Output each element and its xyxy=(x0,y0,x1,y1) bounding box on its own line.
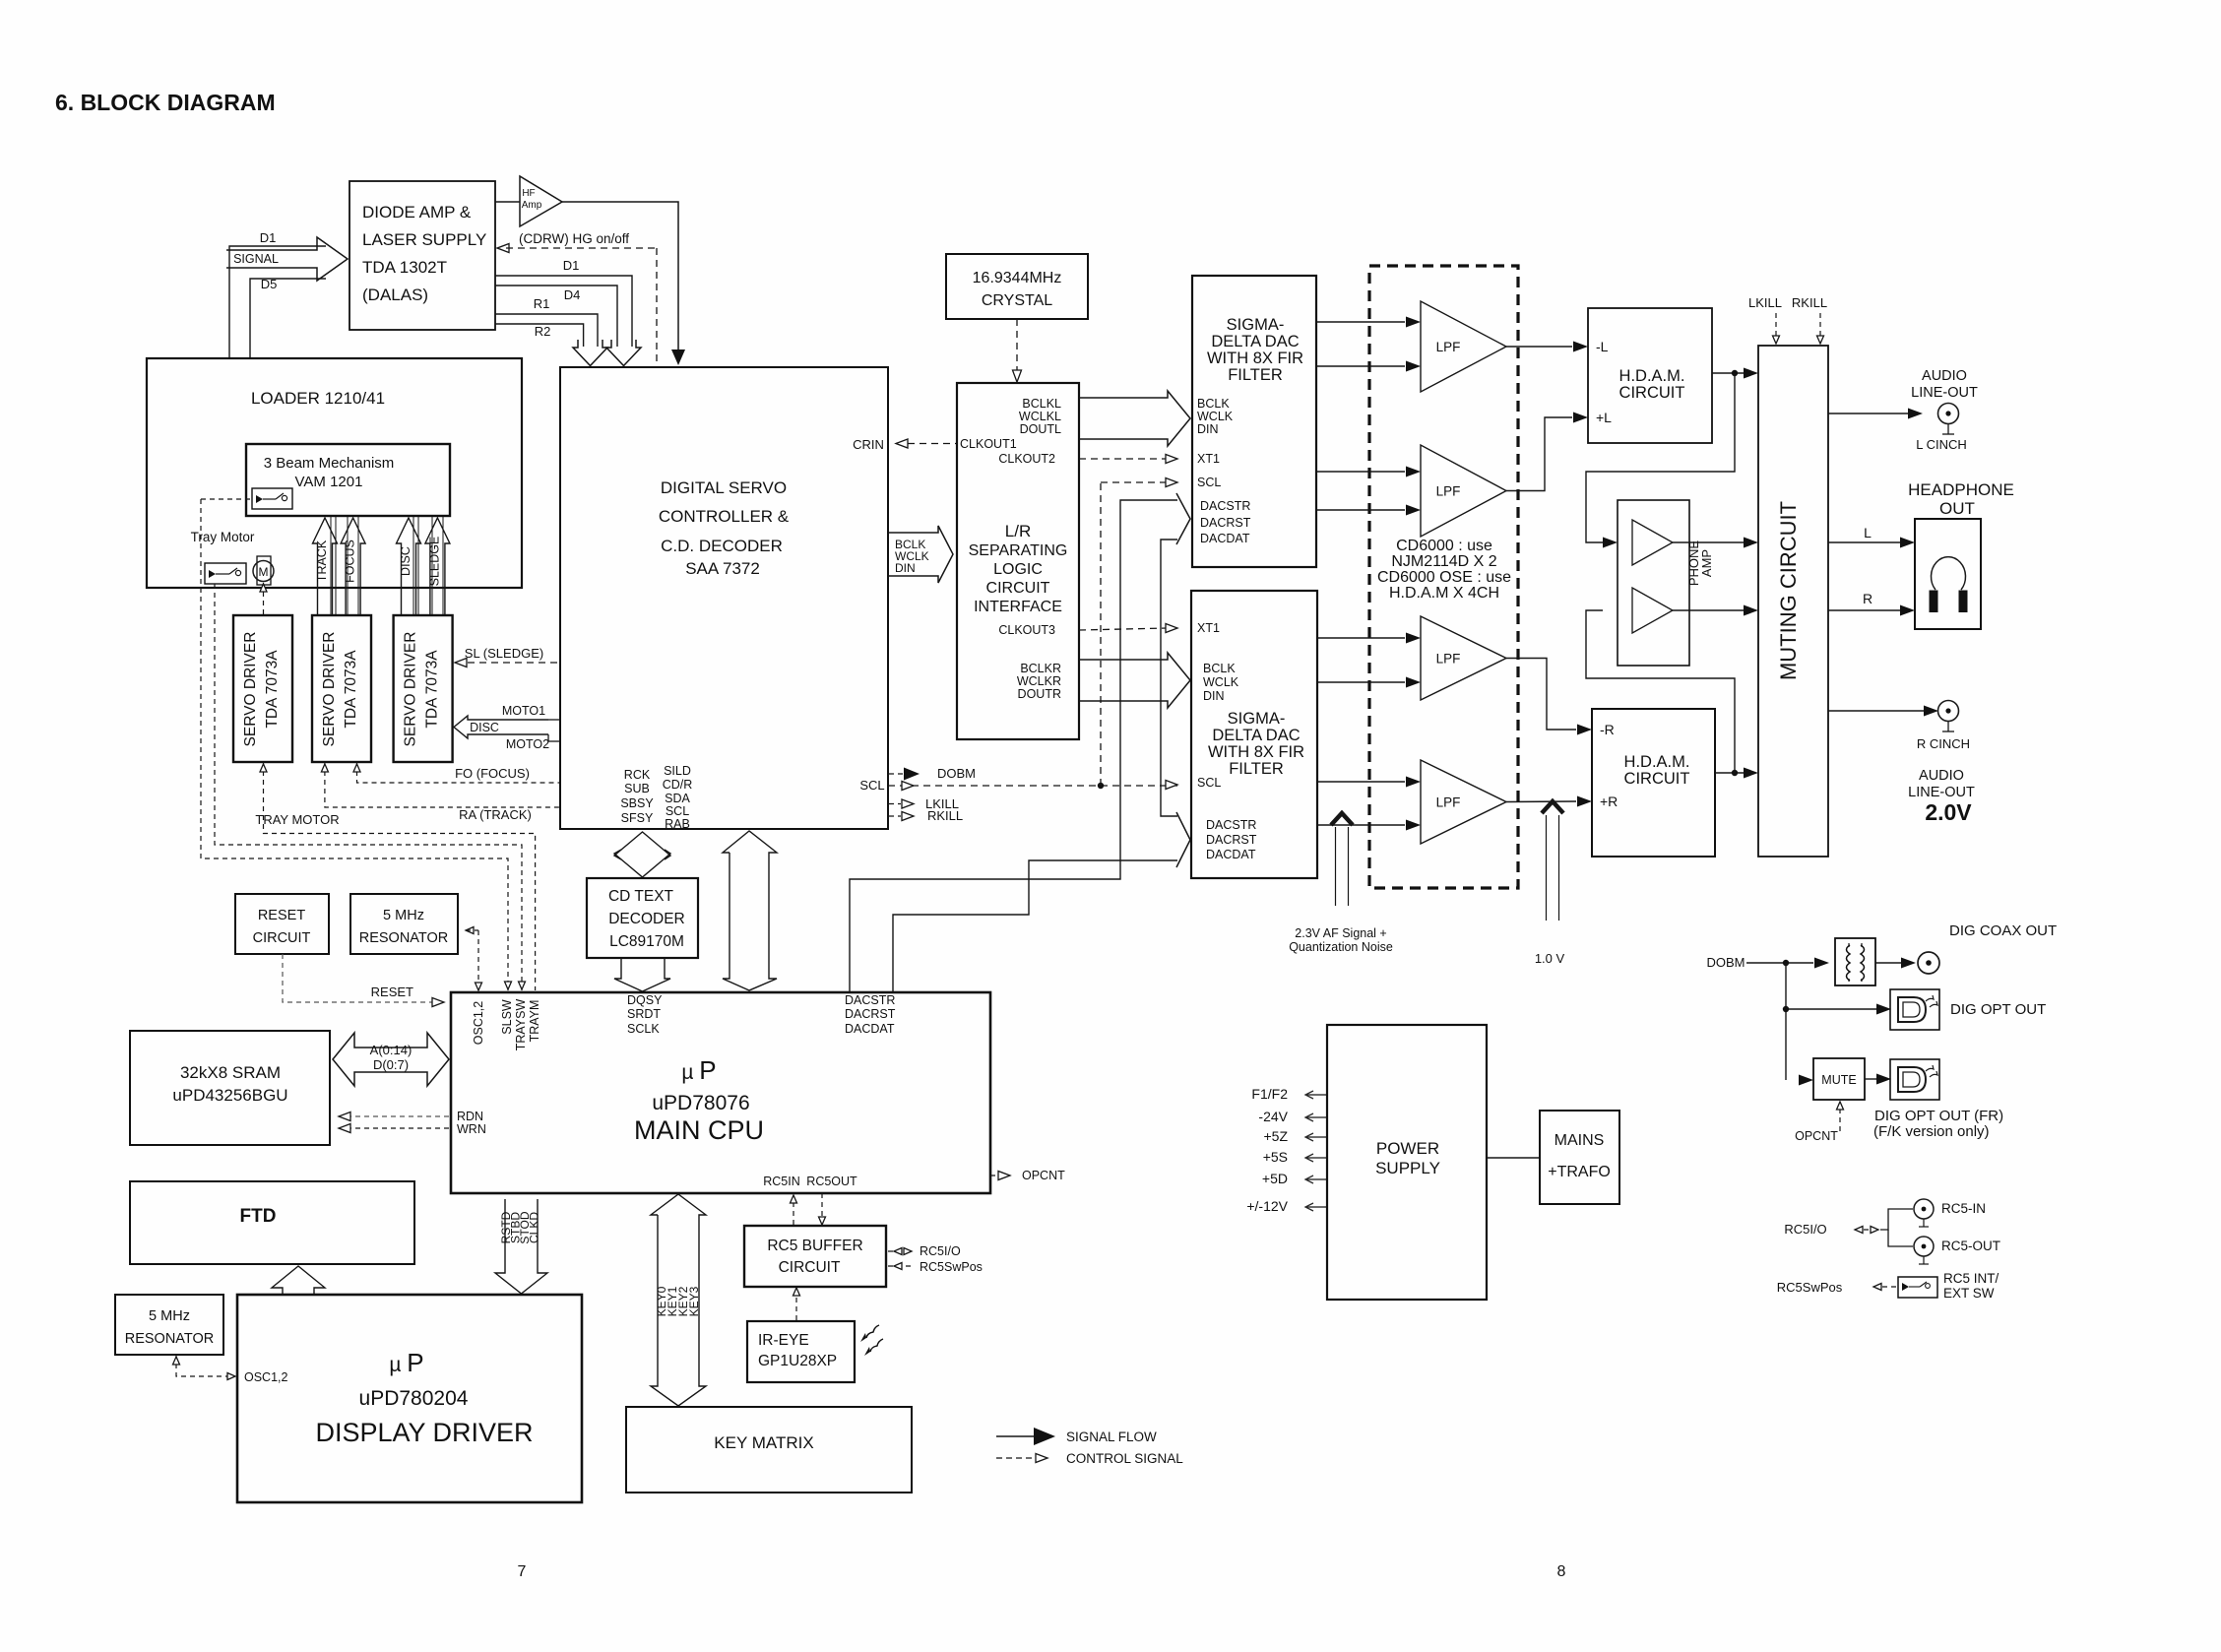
svg-text:RESET: RESET xyxy=(371,985,413,999)
block DISPLAY DRIVER uPD780204 xyxy=(237,1295,582,1502)
svg-text:R: R xyxy=(1863,591,1872,606)
wire HDAM2 output to phone amp 2 xyxy=(1586,610,1735,773)
svg-text:2.0V: 2.0V xyxy=(1925,799,1972,825)
wire muting to L line-out xyxy=(1828,413,1908,414)
wire HDAM1 output to muting xyxy=(1712,372,1744,374)
svg-text:SDA: SDA xyxy=(665,792,690,805)
svg-text:LC89170M: LC89170M xyxy=(609,933,684,950)
svg-text:SCL: SCL xyxy=(1197,776,1221,790)
svg-text:L CINCH: L CINCH xyxy=(1916,437,1967,452)
svg-text:WRN: WRN xyxy=(457,1122,486,1136)
block 5 MHz RESONATOR upper xyxy=(350,894,458,954)
dashed wire crystal to L/R interface xyxy=(1016,319,1018,374)
block DIODE AMP & LASER SUPPLY TDA1302T xyxy=(349,181,495,330)
svg-text:SCL: SCL xyxy=(1197,476,1221,489)
svg-text:R1: R1 xyxy=(534,296,550,311)
wire LPF1 to HDAM -L xyxy=(1506,346,1572,348)
svg-text:DACSTR: DACSTR xyxy=(845,993,895,1007)
svg-text:Quantization Noise: Quantization Noise xyxy=(1289,940,1393,954)
arrow 2.3V AF Signal + Quantization Noise xyxy=(1331,813,1353,825)
dashed wire RC5OUT xyxy=(821,1193,823,1218)
svg-text:FOCUS: FOCUS xyxy=(344,540,357,583)
svg-text:WCLK: WCLK xyxy=(1203,675,1239,689)
wires inside TRACK arrow xyxy=(330,517,332,615)
svg-text:DIN: DIN xyxy=(1197,422,1219,436)
dashed wire WRN xyxy=(347,1127,451,1129)
svg-text:CIRCUIT: CIRCUIT xyxy=(253,930,311,946)
dashed wire RDN xyxy=(347,1115,451,1117)
dashed box op-amp section xyxy=(1369,266,1518,888)
svg-text:uPD780204: uPD780204 xyxy=(359,1387,469,1410)
svg-text:5 MHz: 5 MHz xyxy=(383,908,424,923)
wire MUTE to optical FR xyxy=(1865,1078,1876,1080)
DIG OPT OUT FR connector xyxy=(1890,1059,1939,1100)
svg-text:LOADER 1210/41: LOADER 1210/41 xyxy=(251,389,385,408)
svg-text:SCL: SCL xyxy=(859,778,884,793)
RC5-IN connector xyxy=(1914,1199,1934,1219)
L cinch connector xyxy=(1938,404,1959,424)
svg-text:LPF: LPF xyxy=(1436,795,1461,810)
svg-text:RAB: RAB xyxy=(665,817,690,831)
svg-text:WITH 8X FIR: WITH 8X FIR xyxy=(1208,743,1304,761)
dashed wire tray motor drive from servo driver 1 xyxy=(263,583,265,614)
svg-text:+5Z: +5Z xyxy=(1263,1128,1288,1144)
svg-text:-24V: -24V xyxy=(1258,1109,1288,1124)
RC5 INT/EXT switch xyxy=(1898,1277,1937,1298)
dashed wire (CDRW) HG on/off xyxy=(497,244,509,253)
chevron DACSTR into upper DAC xyxy=(1176,493,1190,544)
svg-text:D1: D1 xyxy=(260,230,277,245)
svg-text:DACSTR: DACSTR xyxy=(1206,818,1256,832)
svg-text:TDA 7073A: TDA 7073A xyxy=(424,650,441,729)
svg-text:WITH 8X FIR: WITH 8X FIR xyxy=(1207,349,1303,367)
wire branch to MUTE xyxy=(1799,1075,1813,1086)
svg-text:OSC1,2: OSC1,2 xyxy=(244,1370,288,1384)
dashed wire OPCNT to MUTE xyxy=(1839,1109,1841,1131)
bus arrow CPU to display driver RSTD STBD STOD CLKD xyxy=(495,1199,547,1294)
block phone amp xyxy=(1618,500,1689,666)
svg-text:L/R: L/R xyxy=(1005,522,1031,540)
svg-text:+R: +R xyxy=(1600,794,1618,809)
block MAINS +TRAFO xyxy=(1540,1111,1619,1204)
switch symbol in 3 beam mechanism xyxy=(252,488,292,509)
svg-text:RCK: RCK xyxy=(624,768,651,782)
block RESET CIRCUIT xyxy=(235,894,329,954)
svg-text:TRACK: TRACK xyxy=(315,540,329,582)
svg-text:L: L xyxy=(1864,525,1872,540)
svg-text:TRAY MOTOR: TRAY MOTOR xyxy=(255,812,339,827)
svg-text:SAA 7372: SAA 7372 xyxy=(685,559,760,578)
svg-text:MUTE: MUTE xyxy=(1821,1073,1856,1087)
block headphone jack xyxy=(1915,519,1981,629)
svg-text:DIN: DIN xyxy=(1203,689,1225,703)
svg-text:SBSY: SBSY xyxy=(620,796,654,810)
svg-text:MUTING CIRCUIT: MUTING CIRCUIT xyxy=(1776,501,1801,680)
svg-text:BCLKL: BCLKL xyxy=(1022,397,1061,411)
svg-text:LPF: LPF xyxy=(1436,484,1461,499)
bus arrow CD TEXT to CPU xyxy=(614,958,670,991)
dashed wire CRIN - CLKOUT1 xyxy=(896,443,957,445)
svg-text:DIODE AMP &: DIODE AMP & xyxy=(362,203,472,222)
svg-text:DACDAT: DACDAT xyxy=(845,1022,895,1036)
svg-text:TDA 7073A: TDA 7073A xyxy=(264,650,281,729)
wire DOBM out of servo xyxy=(888,773,903,775)
wire LPF4 to HDAM2 +R xyxy=(1506,800,1576,803)
phone amp triangle 1 xyxy=(1632,520,1673,565)
block SERVO DRIVER TDA 7073A #2 xyxy=(312,615,371,762)
svg-text:VAM 1201: VAM 1201 xyxy=(295,474,363,490)
svg-text:LASER SUPPLY: LASER SUPPLY xyxy=(362,230,486,249)
svg-text:CLKOUT1: CLKOUT1 xyxy=(960,437,1017,451)
block KEY MATRIX xyxy=(626,1407,912,1493)
svg-text:RC5-OUT: RC5-OUT xyxy=(1941,1239,2000,1253)
svg-text:DIGITAL SERVO: DIGITAL SERVO xyxy=(661,478,787,497)
svg-text:RESET: RESET xyxy=(258,908,305,923)
svg-text:SUB: SUB xyxy=(624,782,650,795)
svg-text:XT1: XT1 xyxy=(1197,621,1220,635)
hollow arrow FOCUS to 3 beam mechanism xyxy=(341,518,365,615)
svg-text:+L: +L xyxy=(1596,410,1612,425)
wire D1 output xyxy=(495,276,632,347)
svg-text:MOTO1: MOTO1 xyxy=(502,704,545,718)
svg-text:SIGNAL FLOW: SIGNAL FLOW xyxy=(1066,1430,1157,1444)
dashed wire RESET to CPU xyxy=(283,954,436,1002)
svg-text:MAIN CPU: MAIN CPU xyxy=(634,1115,764,1145)
svg-text:CIRCUIT: CIRCUIT xyxy=(1624,770,1690,788)
svg-text:(F/K version only): (F/K version only) xyxy=(1873,1123,1990,1140)
svg-text:DISC: DISC xyxy=(399,546,412,576)
wire MOTO1 xyxy=(548,719,560,721)
svg-text:SCL: SCL xyxy=(666,804,689,818)
hollow arrow display driver to FTD xyxy=(272,1266,325,1295)
svg-text:OPCNT: OPCNT xyxy=(1795,1129,1838,1143)
wires lower DAC to LPF3 xyxy=(1317,637,1405,639)
bus arrow BCLK WCLK DIN servo to L/R interface xyxy=(888,526,953,583)
hollow arrow SLEDGE to 3 beam mechanism xyxy=(425,518,450,615)
dashed wire RC5IN xyxy=(793,1201,794,1225)
block RC5 BUFFER CIRCUIT xyxy=(744,1226,886,1287)
switch symbol tray motor xyxy=(205,563,246,584)
svg-text:RC5IN: RC5IN xyxy=(763,1175,800,1188)
dashed wire RC5I/O xyxy=(1855,1229,1878,1231)
svg-text:A(0:14): A(0:14) xyxy=(370,1043,412,1057)
svg-text:M: M xyxy=(259,565,269,579)
svg-text:TDA 7073A: TDA 7073A xyxy=(343,650,359,729)
signal input block arrow into diode amp xyxy=(226,237,348,281)
svg-text:R CINCH: R CINCH xyxy=(1917,736,1970,751)
tray motor M circle xyxy=(257,556,271,585)
dashed wire resonator OSC to CPU xyxy=(466,927,474,934)
svg-text:DACRST: DACRST xyxy=(845,1007,896,1021)
block SERVO DRIVER TDA 7073A #1 xyxy=(233,615,292,762)
svg-text:H.D.A.M.: H.D.A.M. xyxy=(1624,753,1690,771)
svg-text:POWER: POWER xyxy=(1376,1139,1439,1158)
svg-text:LOGIC: LOGIC xyxy=(993,561,1043,578)
svg-text:SILD: SILD xyxy=(664,764,691,778)
block MAIN CPU uPD78076 xyxy=(451,992,990,1193)
svg-text:LPF: LPF xyxy=(1436,340,1461,354)
block H.D.A.M. CIRCUIT upper xyxy=(1588,308,1712,443)
svg-text:IR-EYE: IR-EYE xyxy=(758,1332,809,1349)
svg-text:CONTROL SIGNAL: CONTROL SIGNAL xyxy=(1066,1451,1183,1466)
wire DAC bus CPU to upper DAC xyxy=(850,500,1177,992)
svg-text:DACDAT: DACDAT xyxy=(1200,532,1250,545)
svg-text:DISPLAY DRIVER: DISPLAY DRIVER xyxy=(315,1418,533,1447)
dashed wire from 3 beam switch xyxy=(201,498,252,500)
svg-text:Amp: Amp xyxy=(522,200,542,211)
dashed wire RKILL into muting xyxy=(1819,313,1821,337)
LPF 2 (lower left channel) xyxy=(1421,445,1506,537)
svg-text:RESONATOR: RESONATOR xyxy=(359,930,449,946)
block LOADER 1210/41 xyxy=(147,358,522,588)
svg-text:DECODER: DECODER xyxy=(608,911,685,927)
svg-text:CD TEXT: CD TEXT xyxy=(608,888,674,905)
svg-text:(DALAS): (DALAS) xyxy=(362,286,428,304)
bus arrow servo to CD TEXT xyxy=(614,832,670,859)
wire LPF2 to HDAM +L xyxy=(1506,417,1572,491)
wire diode amp to HF amp xyxy=(495,201,520,203)
svg-text:5 MHz: 5 MHz xyxy=(149,1308,190,1324)
svg-text:CIRCUIT: CIRCUIT xyxy=(779,1259,841,1276)
bus arrow servo to CPU (SILD bus) xyxy=(723,831,777,990)
svg-text:DACDAT: DACDAT xyxy=(1206,848,1256,861)
block SIGMA-DELTA DAC upper xyxy=(1192,276,1316,567)
svg-text:RC5SwPos: RC5SwPos xyxy=(920,1260,983,1274)
wire LPF3 to HDAM2 -R xyxy=(1506,659,1576,731)
wires inside DISC arrow xyxy=(412,517,414,615)
bus arrow CPU to key matrix KEY0-3 xyxy=(651,1194,706,1406)
svg-text:DOUTR: DOUTR xyxy=(1018,687,1061,701)
HF Amp triangle xyxy=(520,176,562,226)
svg-text:8: 8 xyxy=(1557,1563,1566,1580)
dashed wire RC5SwPos xyxy=(1873,1286,1896,1288)
svg-text:CD6000 : use: CD6000 : use xyxy=(1396,538,1492,554)
svg-text:DACSTR: DACSTR xyxy=(1200,499,1250,513)
block 5 MHz RESONATOR lower xyxy=(115,1295,223,1355)
svg-text:SRDT: SRDT xyxy=(627,1007,661,1021)
wire power supply to mains xyxy=(1487,1157,1540,1159)
svg-text:SFSY: SFSY xyxy=(621,811,654,825)
svg-text:BCLK: BCLK xyxy=(1197,397,1230,411)
svg-text:MAINS: MAINS xyxy=(1555,1132,1605,1149)
dashed wire SL (SLEDGE) xyxy=(468,662,560,664)
svg-text:WCLK: WCLK xyxy=(1197,410,1234,423)
svg-text:DIG COAX OUT: DIG COAX OUT xyxy=(1949,922,2057,939)
svg-text:C.D. DECODER: C.D. DECODER xyxy=(661,537,783,555)
svg-text:CLKD: CLKD xyxy=(528,1212,541,1243)
wire DAC bus CPU to lower DAC xyxy=(893,860,1177,992)
svg-text:uPD78076: uPD78076 xyxy=(652,1092,749,1114)
dashed wire RC5I/O stub xyxy=(888,1250,906,1252)
svg-text:RC5I/O: RC5I/O xyxy=(1784,1222,1826,1237)
svg-text:CLKOUT3: CLKOUT3 xyxy=(998,623,1055,637)
svg-text:CLKOUT2: CLKOUT2 xyxy=(998,452,1055,466)
wire HF amp output to servo controller xyxy=(562,202,678,351)
svg-text:H.D.A.M.: H.D.A.M. xyxy=(1619,367,1685,385)
svg-text:WCLKL: WCLKL xyxy=(1019,410,1061,423)
wire R1 output xyxy=(495,314,598,347)
dashed wire FO (FOCUS) xyxy=(357,762,561,783)
legend CONTROL SIGNAL xyxy=(996,1457,1036,1459)
wire DOBM to transformer xyxy=(1746,962,1813,964)
svg-text:SEPARATING: SEPARATING xyxy=(969,542,1068,559)
svg-text:RESONATOR: RESONATOR xyxy=(125,1331,215,1347)
svg-text:DACRST: DACRST xyxy=(1200,516,1251,530)
hollow arrow D1/D4 into servo xyxy=(606,340,641,366)
svg-text:CIRCUIT: CIRCUIT xyxy=(1619,384,1685,402)
svg-text:TDA 1302T: TDA 1302T xyxy=(362,258,447,277)
svg-text:HF: HF xyxy=(522,188,535,199)
dashed wire RC5SwPos stub xyxy=(888,1265,912,1267)
dashed wire SCL vertical to upper DAC xyxy=(1100,482,1102,786)
svg-text:SIGMA-: SIGMA- xyxy=(1228,710,1286,728)
block H.D.A.M. CIRCUIT lower xyxy=(1592,709,1715,857)
wire D1 from loader to diode amp xyxy=(229,246,326,358)
IR waves symbol xyxy=(866,1325,879,1338)
RC5-OUT connector xyxy=(1914,1237,1934,1256)
wire RKILL xyxy=(888,815,901,817)
bus arrow L/R to upper sigma DAC xyxy=(1079,391,1190,446)
DIG COAX OUT connector xyxy=(1918,952,1939,974)
wires to RC5 jacks xyxy=(1880,1209,1913,1230)
svg-text:D5: D5 xyxy=(261,277,278,291)
svg-text:+/-12V: +/-12V xyxy=(1246,1198,1288,1214)
hollow arrow R1/R2 into servo xyxy=(573,340,607,366)
wire transformer to coax xyxy=(1875,962,1901,964)
block FTD xyxy=(130,1181,414,1264)
svg-text:CD6000 OSE : use: CD6000 OSE : use xyxy=(1377,569,1511,586)
svg-text:FO (FOCUS): FO (FOCUS) xyxy=(455,766,530,781)
svg-text:KEY MATRIX: KEY MATRIX xyxy=(714,1433,813,1452)
svg-text:RC5 BUFFER: RC5 BUFFER xyxy=(767,1238,862,1254)
svg-text:DACRST: DACRST xyxy=(1206,833,1257,847)
dashed wire IR-EYE to RC5 buffer xyxy=(795,1295,797,1320)
svg-text:GP1U28XP: GP1U28XP xyxy=(758,1353,837,1369)
R cinch connector xyxy=(1938,701,1959,722)
svg-text:HEADPHONE: HEADPHONE xyxy=(1908,480,2014,499)
wires upper DAC to LPF1 xyxy=(1316,321,1405,323)
hollow arrow DISC to 3 beam mechanism xyxy=(397,518,421,615)
svg-text:RC5SwPos: RC5SwPos xyxy=(1777,1280,1843,1295)
svg-text:SUPPLY: SUPPLY xyxy=(1375,1159,1440,1177)
wire HDAM2 output to muting xyxy=(1715,772,1744,774)
dashed wire CLKOUT3 to XT1 lower xyxy=(1079,628,1168,630)
dashed wire OPCNT out xyxy=(990,1175,1000,1176)
LPF 4 (lower right channel) xyxy=(1421,760,1506,844)
svg-text:RDN: RDN xyxy=(457,1110,483,1123)
block MUTING CIRCUIT xyxy=(1758,346,1828,857)
svg-text:RA (TRACK): RA (TRACK) xyxy=(459,807,532,822)
svg-text:DIN: DIN xyxy=(895,561,916,575)
svg-text:LINE-OUT: LINE-OUT xyxy=(1911,385,1978,401)
svg-text:SLEDGE: SLEDGE xyxy=(427,537,441,587)
svg-text:XT1: XT1 xyxy=(1197,452,1220,466)
wire muting R to headphone xyxy=(1828,609,1900,611)
headphone symbol xyxy=(1932,557,1966,590)
dashed wire tray switch to CPU TRAYSW xyxy=(215,584,522,990)
svg-text:DQSY: DQSY xyxy=(627,993,663,1007)
svg-text:RKILL: RKILL xyxy=(1792,295,1827,310)
block IR-EYE GP1U28XP xyxy=(747,1321,855,1382)
dashed wire CLKOUT2 to XT1 xyxy=(1079,458,1168,460)
svg-text:-R: -R xyxy=(1600,722,1615,737)
dashed wire resonator to display driver xyxy=(176,1355,229,1376)
svg-text:RC5I/O: RC5I/O xyxy=(920,1244,961,1258)
svg-text:SIGMA-: SIGMA- xyxy=(1227,316,1285,334)
svg-text:R2: R2 xyxy=(535,324,551,339)
wires inside FOCUS arrow xyxy=(347,517,349,615)
svg-text:OPCNT: OPCNT xyxy=(1022,1169,1065,1182)
transformer digital out xyxy=(1835,938,1875,985)
wire phone amp1 to muting xyxy=(1673,541,1744,543)
block MUTE xyxy=(1813,1058,1865,1100)
svg-text:F1/F2: F1/F2 xyxy=(1251,1086,1288,1102)
svg-text:D1: D1 xyxy=(563,258,580,273)
svg-text:EXT SW: EXT SW xyxy=(1943,1286,1995,1301)
wire DOBM branch down xyxy=(1785,963,1787,1080)
svg-text:(CDRW) HG on/off: (CDRW) HG on/off xyxy=(519,231,629,246)
wires upper DAC to LPF2 xyxy=(1316,471,1405,473)
svg-text:CONTROLLER &: CONTROLLER & xyxy=(659,507,790,526)
svg-text:OUT: OUT xyxy=(1939,499,1975,518)
svg-text:7: 7 xyxy=(518,1563,527,1580)
svg-text:DOBM: DOBM xyxy=(1707,955,1745,970)
dashed wire RA (TRACK) xyxy=(325,762,560,807)
chevron DACSTR into lower DAC xyxy=(1176,812,1190,867)
svg-text:CIRCUIT: CIRCUIT xyxy=(986,580,1050,597)
svg-text:AUDIO: AUDIO xyxy=(1919,768,1964,784)
svg-text:BCLKR: BCLKR xyxy=(1020,662,1061,675)
svg-text:SLSW: SLSW xyxy=(500,999,514,1035)
dashed wire SCL bus xyxy=(888,785,1177,787)
svg-text:D(0:7): D(0:7) xyxy=(373,1057,409,1072)
svg-text:CD/R: CD/R xyxy=(663,778,693,792)
svg-text:DOUTL: DOUTL xyxy=(1020,422,1061,436)
svg-text:FILTER: FILTER xyxy=(1229,760,1284,778)
svg-text:2.3V AF Signal +: 2.3V AF Signal + xyxy=(1295,926,1386,940)
wire LKILL xyxy=(888,803,901,805)
svg-text:CRIN: CRIN xyxy=(853,437,884,452)
LPF 1 (upper left channel) xyxy=(1421,301,1506,392)
wires inside SLEDGE arrow xyxy=(431,517,433,615)
arrow 1.0 V xyxy=(1542,801,1563,813)
svg-text:BCLK: BCLK xyxy=(1203,662,1236,675)
svg-text:16.9344MHz: 16.9344MHz xyxy=(973,270,1062,286)
svg-text:H.D.A.M X 4CH: H.D.A.M X 4CH xyxy=(1389,585,1499,602)
wire muting to R line-out xyxy=(1828,710,1924,712)
svg-text:3 Beam Mechanism: 3 Beam Mechanism xyxy=(264,455,395,472)
wire D4 output xyxy=(495,286,617,347)
svg-text:AUDIO: AUDIO xyxy=(1922,368,1967,384)
bus arrow A(0:14) D(0:7) xyxy=(333,1033,449,1086)
svg-text:RC5OUT: RC5OUT xyxy=(806,1175,857,1188)
svg-text:RC5-IN: RC5-IN xyxy=(1941,1201,1986,1216)
hollow arrow TRACK to 3 beam mechanism xyxy=(313,518,338,615)
wire DAC bus upper DAC to lower DAC xyxy=(1161,540,1177,816)
svg-text:32kX8 SRAM: 32kX8 SRAM xyxy=(180,1063,281,1082)
svg-text:DIG OPT OUT (FR): DIG OPT OUT (FR) xyxy=(1874,1108,2003,1124)
wire MOTO2 xyxy=(548,740,560,742)
wire D5 from loader to diode amp xyxy=(250,279,326,358)
svg-text:SERVO DRIVER: SERVO DRIVER xyxy=(242,632,259,747)
svg-text:LKILL: LKILL xyxy=(1748,295,1782,310)
svg-text:SIGNAL: SIGNAL xyxy=(233,252,279,266)
svg-text:DELTA DAC: DELTA DAC xyxy=(1211,333,1299,350)
svg-text:DELTA DAC: DELTA DAC xyxy=(1212,727,1300,744)
svg-text:RC5 INT/: RC5 INT/ xyxy=(1943,1271,1999,1286)
dashed wire LKILL into muting xyxy=(1775,313,1777,337)
svg-text:MOTO2: MOTO2 xyxy=(506,737,549,751)
